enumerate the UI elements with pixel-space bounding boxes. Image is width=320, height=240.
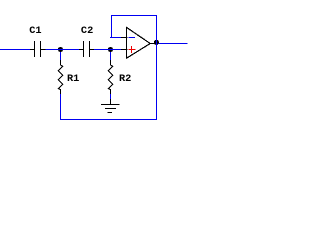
C2 right plate [89,41,91,57]
svg-text:C1: C1 [29,25,41,37]
ground stem [110,99,112,105]
op-amp inverting input pin [121,37,128,39]
op-amp plus marker [128,46,135,53]
C2 left plate [83,41,85,57]
op-amp minus marker [128,37,135,39]
output node junction dot [154,40,159,45]
C2 right lead [89,49,94,51]
ground bar 2 [105,108,116,110]
capacitor C2 [79,41,94,57]
node B junction dot [108,47,113,52]
C1 left plate [34,41,36,57]
C1 right lead [40,49,46,51]
op-amp output pin [150,43,155,45]
wire R1 bottom around to output node [61,44,157,120]
ground bar 1 [101,104,120,106]
wire C1 to C2 through node A [46,49,80,51]
wire output [159,43,188,45]
ground bar 3 [108,112,113,114]
wire C2 to op-amp plus input through node B [94,49,121,51]
svg-text:R2: R2 [119,73,131,85]
node A junction dot [58,47,63,52]
wire node B down to R2 [110,52,112,60]
wire feedback from minus input over the top to output node [112,16,157,44]
C2 left lead [79,49,84,51]
wire R2 bottom to ground [110,94,112,99]
svg-text:R1: R1 [67,73,79,85]
resistor R1 [58,60,63,95]
op-amp non-inverting input pin [121,49,128,51]
ground [101,99,120,113]
wire input to C1 [0,49,30,51]
op-amp triangle body [127,27,151,58]
C1 right plate [40,41,42,57]
svg-text:C2: C2 [81,25,93,37]
wire node A down to R1 [60,52,62,60]
C1 left lead [30,49,35,51]
wire minus input [110,37,121,39]
op-amp [121,27,155,58]
resistor R2 [108,60,113,95]
capacitor C1 [30,41,46,57]
